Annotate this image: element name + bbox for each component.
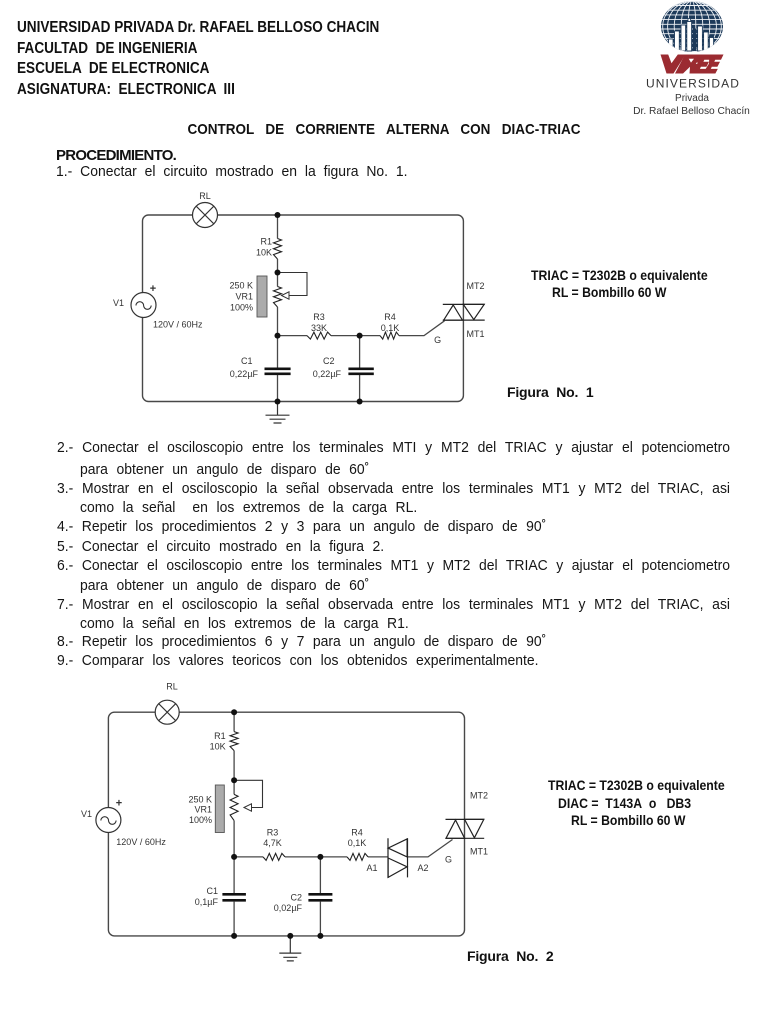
svg-text:R3: R3 bbox=[267, 828, 279, 838]
svg-text:C1: C1 bbox=[241, 356, 253, 366]
svg-text:V1: V1 bbox=[81, 809, 92, 819]
capacitor C2 fig2 bbox=[274, 892, 333, 913]
svg-text:R1: R1 bbox=[214, 731, 226, 741]
wire outer loop fig2 bbox=[108, 712, 464, 936]
svg-text:UNIVERSIDAD: UNIVERSIDAD bbox=[646, 76, 740, 90]
capacitor C2 fig1 bbox=[313, 356, 374, 379]
svg-text:R4: R4 bbox=[384, 312, 396, 322]
svg-text:0,02µF: 0,02µF bbox=[274, 903, 303, 913]
title bbox=[38, 120, 729, 140]
svg-text:G: G bbox=[445, 855, 452, 865]
svg-text:A2: A2 bbox=[417, 863, 428, 873]
procedure items 2-9 bbox=[57, 438, 730, 457]
wire node row fig2 bbox=[234, 840, 452, 857]
lamp RL fig2 bbox=[155, 682, 179, 725]
svg-text:100%: 100% bbox=[230, 303, 253, 313]
figure 1 side labels bbox=[531, 267, 708, 283]
svg-text:0,1K: 0,1K bbox=[381, 323, 400, 333]
logo globe bbox=[661, 1, 723, 52]
figure 2 side labels bbox=[548, 777, 725, 793]
svg-text:250 K: 250 K bbox=[229, 281, 253, 291]
logo URBE red letters bbox=[661, 55, 724, 74]
figure 2 schematic bbox=[60, 670, 500, 970]
svg-text:RL: RL bbox=[166, 682, 178, 692]
diac labels fig2 bbox=[366, 863, 428, 873]
resistor R3 fig2 bbox=[263, 828, 285, 861]
svg-text:VR1: VR1 bbox=[235, 292, 253, 302]
svg-text:0,1µF: 0,1µF bbox=[195, 897, 219, 907]
svg-text:C1: C1 bbox=[206, 886, 218, 896]
diac fig2 bbox=[388, 838, 408, 878]
wire middle branch fig2 bbox=[233, 712, 235, 936]
svg-text:10K: 10K bbox=[256, 248, 272, 258]
resistor R3 fig1 bbox=[307, 312, 331, 339]
svg-text:120V / 60Hz: 120V / 60Hz bbox=[153, 320, 203, 330]
source V1 fig1 bbox=[113, 283, 203, 330]
junction dots fig2 bbox=[231, 709, 323, 939]
svg-text:0,22µF: 0,22µF bbox=[230, 369, 259, 379]
lamp RL fig1 bbox=[193, 191, 218, 228]
capacitor C1 fig1 bbox=[230, 356, 291, 379]
wire middle branch fig1 bbox=[277, 215, 279, 402]
ground fig1 bbox=[266, 402, 290, 424]
svg-text:VR1: VR1 bbox=[194, 805, 212, 815]
svg-text:R1: R1 bbox=[260, 237, 272, 247]
svg-text:RL: RL bbox=[199, 191, 211, 201]
source V1 fig2 bbox=[81, 798, 166, 848]
figure 1 schematic bbox=[95, 185, 500, 430]
junction dots fig1 bbox=[275, 212, 363, 405]
wire C2 branch fig1 bbox=[359, 336, 361, 402]
svg-text:R3: R3 bbox=[313, 312, 325, 322]
svg-text:4,7K: 4,7K bbox=[263, 838, 282, 848]
triac fig1 bbox=[443, 304, 485, 320]
svg-text:0,1K: 0,1K bbox=[348, 838, 367, 848]
svg-text:MT2: MT2 bbox=[470, 791, 488, 801]
svg-text:10K: 10K bbox=[210, 742, 226, 752]
resistor R4 fig1 bbox=[380, 312, 399, 339]
svg-text:R4: R4 bbox=[351, 828, 363, 838]
svg-text:100%: 100% bbox=[189, 815, 212, 825]
logo buildings bbox=[669, 19, 714, 52]
wire C2 branch fig2 bbox=[319, 857, 321, 936]
svg-text:+: + bbox=[116, 798, 122, 810]
svg-text:Privada: Privada bbox=[675, 93, 709, 104]
wire outer loop fig1 bbox=[143, 215, 464, 402]
svg-text:A1: A1 bbox=[366, 863, 377, 873]
svg-text:G: G bbox=[434, 335, 441, 345]
potentiometer VR1 fig1 bbox=[229, 273, 307, 318]
svg-text:250 K: 250 K bbox=[188, 795, 212, 805]
svg-text:C2: C2 bbox=[323, 356, 335, 366]
svg-text:MT2: MT2 bbox=[467, 281, 485, 291]
svg-text:MT1: MT1 bbox=[470, 847, 488, 857]
svg-text:MT1: MT1 bbox=[467, 329, 485, 339]
potentiometer VR1 fig2 bbox=[188, 780, 262, 832]
resistor R1 fig1 bbox=[256, 237, 282, 260]
svg-text:120V / 60Hz: 120V / 60Hz bbox=[116, 837, 166, 847]
svg-text:Dr. Rafael Belloso Chacín: Dr. Rafael Belloso Chacín bbox=[633, 106, 750, 117]
ground fig2 bbox=[279, 936, 301, 961]
resistor R4 fig2 bbox=[347, 828, 368, 861]
wire node row fig1 bbox=[278, 321, 445, 336]
logo URBE bbox=[620, 0, 768, 120]
triac labels fig1 bbox=[434, 281, 484, 345]
svg-text:33K: 33K bbox=[311, 323, 327, 333]
svg-text:+: + bbox=[150, 283, 156, 295]
triac fig2 bbox=[446, 819, 485, 838]
svg-text:C2: C2 bbox=[290, 892, 302, 902]
svg-text:0,22µF: 0,22µF bbox=[313, 369, 342, 379]
resistor R1 fig2 bbox=[210, 731, 239, 752]
svg-text:V1: V1 bbox=[113, 298, 124, 308]
capacitor C1 fig2 bbox=[195, 886, 246, 907]
header bbox=[17, 18, 379, 100]
triac labels fig2 bbox=[445, 791, 488, 865]
